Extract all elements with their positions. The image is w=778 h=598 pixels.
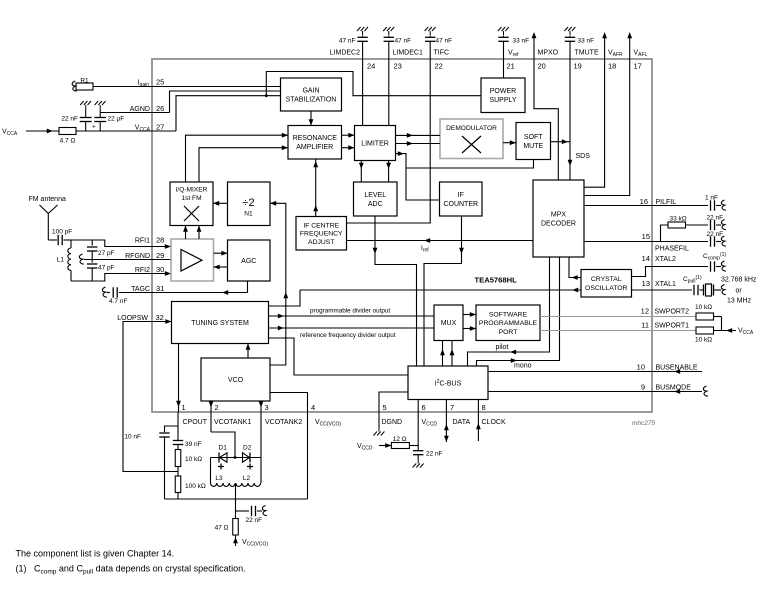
svg-text:27 pF: 27 pF xyxy=(98,250,115,257)
pin 7 DATA bidirectional xyxy=(445,400,447,443)
capacitor 1nF pin16 xyxy=(710,200,712,210)
block VCO xyxy=(201,358,270,401)
pin 27 VCCA wire xyxy=(76,130,152,132)
capacitor 27pF xyxy=(91,240,93,246)
svg-text:22 µF: 22 µF xyxy=(108,116,125,123)
svg-text:33 kΩ: 33 kΩ xyxy=(670,216,687,223)
svg-text:L3: L3 xyxy=(215,475,223,482)
wire pin1 CPOUT external xyxy=(177,412,179,441)
svg-text:MPX: MPX xyxy=(551,211,567,218)
LOOPSW external wire to resistor divider xyxy=(123,322,178,472)
svg-text:18: 18 xyxy=(608,62,616,71)
VCCVCO supply arrow xyxy=(235,535,237,546)
capacitor 47nF pin23 xyxy=(384,36,394,38)
pin 25 Igain wire xyxy=(152,86,281,88)
pin 20 internal wire to MPX decoder xyxy=(534,59,558,180)
svg-text:100 kΩ: 100 kΩ xyxy=(185,483,206,490)
svg-text:GAIN: GAIN xyxy=(302,87,319,94)
pin 20 MPXO stub with arrow xyxy=(533,36,535,59)
block LEVEL ADC xyxy=(354,182,398,216)
svg-text:22: 22 xyxy=(435,62,443,71)
svg-text:39 nF: 39 nF xyxy=(185,441,202,448)
capacitor Ccomp xyxy=(710,261,712,271)
pin 31 TAGC wire xyxy=(152,292,248,294)
svg-text:11: 11 xyxy=(641,321,649,330)
svg-text:29: 29 xyxy=(156,251,164,260)
svg-text:22 nF: 22 nF xyxy=(246,517,263,524)
svg-text:AMPLIFIER: AMPLIFIER xyxy=(296,144,333,151)
svg-text:TUNING SYSTEM: TUNING SYSTEM xyxy=(191,320,249,327)
block POWER SUPPLY xyxy=(481,78,525,113)
ground pin21 xyxy=(503,31,505,36)
svg-text:9: 9 xyxy=(641,383,645,392)
bottom rail VCCVCO xyxy=(165,498,308,500)
svg-text:13: 13 xyxy=(642,279,650,288)
block AGC xyxy=(228,240,271,281)
svg-text:POWER: POWER xyxy=(490,88,516,95)
svg-text:1: 1 xyxy=(182,403,186,412)
RFGND wire with ground xyxy=(84,259,152,261)
svg-text:DATA: DATA xyxy=(453,419,471,426)
block GAIN STABILIZATION xyxy=(281,78,342,111)
ground VCCD cap xyxy=(417,459,419,464)
VCCA source arrow xyxy=(26,130,59,132)
pin 19 TMUTE stub xyxy=(569,41,571,59)
wires MUX to software programmable port xyxy=(463,314,476,316)
capacitor 22nF shunt xyxy=(85,105,87,110)
svg-text:26: 26 xyxy=(156,104,164,113)
tank bottom rail to RFI2 xyxy=(71,274,152,282)
block SOFTWARE PROGRAMMABLE PORT xyxy=(476,305,540,341)
svg-text:CPOUT: CPOUT xyxy=(183,419,208,426)
svg-text:STABILIZATION: STABILIZATION xyxy=(286,96,337,103)
VCCD supply resistor 12 ohm xyxy=(379,445,392,447)
wires resonance amplifier to limiter xyxy=(342,134,355,136)
svg-text:CLOCK: CLOCK xyxy=(482,419,506,426)
pin 24 internal wire to limiter xyxy=(362,59,364,126)
svg-text:47 nF: 47 nF xyxy=(339,38,356,45)
pin 6 VCCD xyxy=(417,400,419,451)
pin 3 VCOTANK2 xyxy=(260,401,262,483)
svg-text:TIFC: TIFC xyxy=(434,50,450,57)
programmable divider output line xyxy=(269,315,435,317)
svg-text:32: 32 xyxy=(156,313,164,322)
pin 17 internal wire from MPX decoder xyxy=(584,59,630,196)
svg-text:33 nF: 33 nF xyxy=(513,38,530,45)
capacitor 47pF xyxy=(91,260,93,263)
svg-text:PILFIL: PILFIL xyxy=(656,199,677,206)
svg-text:1 nF: 1 nF xyxy=(705,195,718,202)
pin 18 internal wire from MPX decoder xyxy=(584,59,605,187)
wire AGND external to 22uF node xyxy=(100,112,152,114)
svg-text:47 nF: 47 nF xyxy=(436,38,453,45)
svg-text:12: 12 xyxy=(641,307,649,316)
ground pin19 xyxy=(569,31,571,36)
wire VCCA branch to power supply xyxy=(266,72,481,96)
wire pin27 to gain stabilization xyxy=(176,96,281,131)
Iref line IF centre to MPX xyxy=(347,240,534,242)
svg-text:VCO: VCO xyxy=(228,377,244,384)
wire VCO to divider xyxy=(270,203,286,365)
block RF amplifier xyxy=(171,239,214,281)
svg-text:12 Ω: 12 Ω xyxy=(393,436,407,443)
svg-text:VCOTANK2: VCOTANK2 xyxy=(265,419,302,426)
svg-text:20: 20 xyxy=(538,62,546,71)
resistor 4.7 ohm xyxy=(59,128,76,135)
svg-text:5: 5 xyxy=(383,403,387,412)
TAGC external capacitor 4.7nF xyxy=(119,292,152,294)
svg-text:23: 23 xyxy=(394,62,402,71)
svg-text:L1: L1 xyxy=(57,257,65,264)
svg-text:FM antenna: FM antenna xyxy=(29,196,66,203)
svg-text:SWPORT2: SWPORT2 xyxy=(655,309,690,316)
svg-text:SOFTWARE: SOFTWARE xyxy=(489,311,528,318)
wire tuning system to CPOUT pin1 xyxy=(178,344,180,413)
block SOFT MUTE xyxy=(516,123,551,160)
pin 23 internal wire to limiter xyxy=(388,59,390,126)
capacitor 22nF on 33k branch xyxy=(710,220,712,230)
svg-text:D1: D1 xyxy=(219,445,228,452)
svg-text:19: 19 xyxy=(574,62,582,71)
resistor 10k upper xyxy=(696,313,714,320)
wire IF counter to I2C bus xyxy=(424,216,462,366)
IC outline TEA5768HL xyxy=(152,59,652,412)
svg-text:28: 28 xyxy=(156,236,164,245)
crystal symbol xyxy=(703,285,705,296)
block DEMODULATOR xyxy=(440,119,503,159)
svg-text:PROGRAMMABLE: PROGRAMMABLE xyxy=(479,320,538,327)
resistor 33k branch xyxy=(661,225,669,242)
svg-text:DGND: DGND xyxy=(382,419,403,426)
wire crystal oscillator to MPX decoder xyxy=(569,257,581,278)
wire level adc to I2C bus xyxy=(375,216,417,366)
pin 4 VCCVCO xyxy=(270,393,308,500)
block TUNING SYSTEM xyxy=(172,302,269,344)
wire VCO to tuning system xyxy=(247,344,249,359)
svg-text:31: 31 xyxy=(156,284,164,293)
resistor 10k lower xyxy=(696,327,714,334)
capacitor 47nF pin22 xyxy=(425,36,435,38)
svg-text:or: or xyxy=(736,288,743,295)
svg-text:7: 7 xyxy=(450,403,454,412)
capacitor 22nF on phasefil xyxy=(710,236,712,246)
svg-text:MUX: MUX xyxy=(441,320,457,327)
pin 23 LIMDEC1 stub xyxy=(388,41,390,59)
inductor L3 xyxy=(211,483,236,486)
svg-text:BUSENABLE: BUSENABLE xyxy=(656,365,698,372)
svg-text:COUNTER: COUNTER xyxy=(443,201,478,208)
wires amplifier to mixer xyxy=(185,226,187,240)
wires limiter to level adc xyxy=(360,161,362,183)
svg-text:47 pF: 47 pF xyxy=(98,265,115,272)
pin 17 VAFL stub with arrow xyxy=(629,36,631,59)
svg-text:4.7 Ω: 4.7 Ω xyxy=(60,138,76,145)
svg-text:LIMDEC1: LIMDEC1 xyxy=(393,50,423,57)
ground DGND xyxy=(378,427,380,432)
svg-text:IF: IF xyxy=(458,192,464,199)
tuning system to I2C bus line xyxy=(269,338,409,375)
ground pin23 xyxy=(388,31,390,36)
varactor diode D1 xyxy=(218,453,220,463)
capacitor 100pF xyxy=(48,239,57,241)
ground squiggle R1 xyxy=(72,81,77,92)
pin 14 XTAL2 line xyxy=(632,267,709,277)
svg-text:+: + xyxy=(92,124,96,131)
svg-text:DEMODULATOR: DEMODULATOR xyxy=(446,125,497,132)
svg-text:ADJUST: ADJUST xyxy=(308,239,334,246)
block CRYSTAL OSCILLATOR xyxy=(581,270,632,298)
block MUX xyxy=(434,305,463,341)
svg-text:PHASEFIL: PHASEFIL xyxy=(655,246,689,253)
pin 21 internal wire to power supply xyxy=(503,59,505,78)
svg-text:SOFT: SOFT xyxy=(524,134,543,141)
wires limiter to demodulator xyxy=(396,134,441,136)
svg-text:47 Ω: 47 Ω xyxy=(215,525,229,532)
svg-text:15: 15 xyxy=(642,232,650,241)
pin 32 LOOPSW wire xyxy=(152,321,172,323)
svg-text:BUSMODE: BUSMODE xyxy=(656,385,692,392)
svg-text:TEA5768HL: TEA5768HL xyxy=(475,276,518,285)
svg-text:÷2: ÷2 xyxy=(242,197,254,209)
block LIMITER xyxy=(355,126,396,161)
block I2C-BUS xyxy=(408,366,488,400)
svg-text:25: 25 xyxy=(156,78,164,87)
pin 28 RFI1 wire xyxy=(152,246,171,248)
svg-text:mono: mono xyxy=(514,363,532,370)
pin 18 VAFR stub with arrow xyxy=(604,36,606,59)
ground pin24 xyxy=(362,31,364,36)
pin 29 RFGND wire xyxy=(152,259,171,261)
svg-text:LEVEL: LEVEL xyxy=(364,192,386,199)
wire soft mute to SDS line xyxy=(551,141,571,143)
svg-text:4: 4 xyxy=(311,403,315,412)
pin 30 RFI2 wire xyxy=(152,273,171,275)
svg-text:VCOTANK1: VCOTANK1 xyxy=(214,419,251,426)
svg-text:TMUTE: TMUTE xyxy=(575,50,599,57)
svg-text:27: 27 xyxy=(156,123,164,132)
resistor R1 xyxy=(76,83,93,90)
block I/Q-MIXER 1st FM xyxy=(170,182,213,226)
svg-text:24: 24 xyxy=(367,62,375,71)
capacitor 10nF xyxy=(159,432,169,434)
svg-text:6: 6 xyxy=(422,403,426,412)
svg-text:XTAL1: XTAL1 xyxy=(655,281,676,288)
varactor link pin2 xyxy=(211,432,235,458)
svg-text:10 kΩ: 10 kΩ xyxy=(185,456,202,463)
wire XTAL1 reference to tuning xyxy=(300,289,581,291)
pin 5 DGND xyxy=(379,392,408,427)
svg-text:R1: R1 xyxy=(80,78,89,85)
svg-text:SDS: SDS xyxy=(576,153,591,160)
svg-text:8: 8 xyxy=(482,403,486,412)
ground pin22 xyxy=(429,31,431,36)
svg-text:100 pF: 100 pF xyxy=(52,229,72,236)
block MPX DECODER xyxy=(533,180,584,257)
wire pin26 to gain stabilization xyxy=(170,91,281,113)
FM antenna symbol xyxy=(40,205,49,240)
svg-text:FREQUENCY: FREQUENCY xyxy=(300,231,343,238)
mono line I2C to MPX xyxy=(477,257,560,366)
svg-text:LIMDEC2: LIMDEC2 xyxy=(330,50,360,57)
svg-text:mhc275: mhc275 xyxy=(632,420,656,427)
pin 19 internal wire / SDS line to MPX decoder xyxy=(569,59,571,180)
svg-text:AGC: AGC xyxy=(241,258,256,265)
svg-text:22 nF: 22 nF xyxy=(426,451,443,458)
reference frequency divider output line xyxy=(269,327,435,329)
svg-text:47 nF: 47 nF xyxy=(395,38,412,45)
pilot line MPX to I2C xyxy=(468,257,550,366)
pin 22 internal wire to IF centre adjust xyxy=(347,59,431,223)
svg-text:3: 3 xyxy=(265,403,269,412)
svg-text:reference frequency divider ou: reference frequency divider output xyxy=(300,332,396,339)
wires I2C bus to MUX xyxy=(442,341,444,367)
inductor L2 xyxy=(236,483,261,486)
svg-text:SUPPLY: SUPPLY xyxy=(489,97,516,104)
svg-text:13 MHz: 13 MHz xyxy=(727,298,752,305)
pin 22 TIFC stub xyxy=(429,41,431,59)
svg-text:IF CENTRE: IF CENTRE xyxy=(303,222,339,229)
resistor 47 ohm xyxy=(233,519,239,536)
pin 9 BUSMODE line xyxy=(488,391,702,393)
svg-text:32.768 kHz: 32.768 kHz xyxy=(721,277,757,284)
svg-text:LIMITER: LIMITER xyxy=(361,140,389,147)
wire gain stab to resonance amplifier xyxy=(310,111,312,126)
svg-text:14: 14 xyxy=(642,254,650,263)
svg-text:2: 2 xyxy=(215,403,219,412)
pin 11 SWPORT1 line xyxy=(540,330,696,332)
svg-text:L2: L2 xyxy=(243,475,251,482)
capacitor 33nF pin21 xyxy=(498,36,508,38)
pin 12 SWPORT2 line xyxy=(540,316,696,318)
svg-text:MPXO: MPXO xyxy=(538,50,559,57)
wire demodulator to soft mute xyxy=(503,142,516,144)
wire divider to mixer xyxy=(213,202,228,204)
pin 10 BUSENABLE line xyxy=(488,371,702,373)
svg-text:PORT: PORT xyxy=(499,329,518,336)
capacitor 22uF shunt xyxy=(99,105,101,110)
svg-text:1st FM: 1st FM xyxy=(181,195,201,202)
svg-text:22 nF: 22 nF xyxy=(707,231,724,238)
svg-text:The component list is given Ch: The component list is given Chapter 14. xyxy=(16,549,175,559)
capacitor 33nF pin19 xyxy=(565,36,575,38)
VCCA pullup junction xyxy=(721,317,723,331)
pin 13 XTAL1 line xyxy=(632,289,693,291)
svg-text:4.7 nF: 4.7 nF xyxy=(109,298,127,305)
svg-text:10 nF: 10 nF xyxy=(124,434,141,441)
svg-text:DECODER: DECODER xyxy=(541,220,576,227)
wire R1 to ground xyxy=(93,86,152,88)
svg-text:22 nF: 22 nF xyxy=(61,116,78,123)
block RESONANCE AMPLIFIER xyxy=(288,126,342,160)
svg-text:33 nF: 33 nF xyxy=(578,38,595,45)
svg-text:programmable divider output: programmable divider output xyxy=(310,308,390,315)
capacitor 39nF xyxy=(173,440,183,442)
node antenna to RFI1 xyxy=(71,240,152,247)
pin 2 VCOTANK1 xyxy=(210,401,212,432)
svg-text:pilot: pilot xyxy=(496,344,509,351)
svg-text:10 kΩ: 10 kΩ xyxy=(695,304,712,311)
block IF CENTRE FREQUENCY ADJUST xyxy=(296,217,347,251)
svg-text:21: 21 xyxy=(507,62,515,71)
capacitor 22nF on VCCD xyxy=(413,450,423,452)
svg-text:17: 17 xyxy=(634,62,642,71)
wire IF centre to resonance amplifier xyxy=(315,159,317,217)
resistor 10k loop filter xyxy=(175,450,181,467)
wires IQ mixer to resonance amplifier xyxy=(186,135,289,182)
svg-text:D2: D2 xyxy=(243,445,252,452)
pin 8 CLOCK xyxy=(477,400,479,442)
block IF COUNTER xyxy=(440,182,483,216)
pin 15 PHASEFIL line xyxy=(584,241,708,243)
svg-text:CRYSTAL: CRYSTAL xyxy=(591,276,622,283)
block divide-by-2 N1 xyxy=(228,182,271,226)
svg-text:RFI1: RFI1 xyxy=(135,238,150,245)
pin 24 LIMDEC2 stub xyxy=(362,41,364,59)
svg-text:I/Q-MIXER: I/Q-MIXER xyxy=(176,187,208,194)
resistor 100k loop filter xyxy=(175,476,181,493)
varactor diode D2 xyxy=(249,453,251,463)
inductor L1 xyxy=(70,240,72,248)
svg-text:16: 16 xyxy=(640,197,648,206)
pin 21 Vref stub xyxy=(503,41,505,59)
svg-text:OSCILLATOR: OSCILLATOR xyxy=(585,285,628,292)
limiter third output to soft mute and IF counter xyxy=(396,154,440,200)
capacitor 22nF tank xyxy=(236,510,250,512)
pin 16 PILFIL line xyxy=(584,205,708,207)
centre tap to 47 ohm xyxy=(235,485,237,519)
diode line xyxy=(211,457,261,459)
svg-text:22 nF: 22 nF xyxy=(707,215,724,222)
svg-text:N1: N1 xyxy=(244,211,253,218)
capacitor Cpull xyxy=(693,285,695,295)
svg-text:I2C-BUS: I2C-BUS xyxy=(435,379,462,388)
svg-text:SWPORT1: SWPORT1 xyxy=(655,323,690,330)
svg-text:XTAL2: XTAL2 xyxy=(655,256,676,263)
wires amplifier AGC xyxy=(214,252,228,254)
svg-text:RESONANCE: RESONANCE xyxy=(293,135,338,142)
svg-text:30: 30 xyxy=(156,265,164,274)
svg-text:10: 10 xyxy=(637,363,645,372)
pin 26 AGND wire xyxy=(152,112,170,114)
svg-text:ADC: ADC xyxy=(368,201,383,208)
svg-text:10 kΩ: 10 kΩ xyxy=(695,337,712,344)
capacitor 47nF pin24 xyxy=(357,36,367,38)
svg-text:MUTE: MUTE xyxy=(523,143,543,150)
